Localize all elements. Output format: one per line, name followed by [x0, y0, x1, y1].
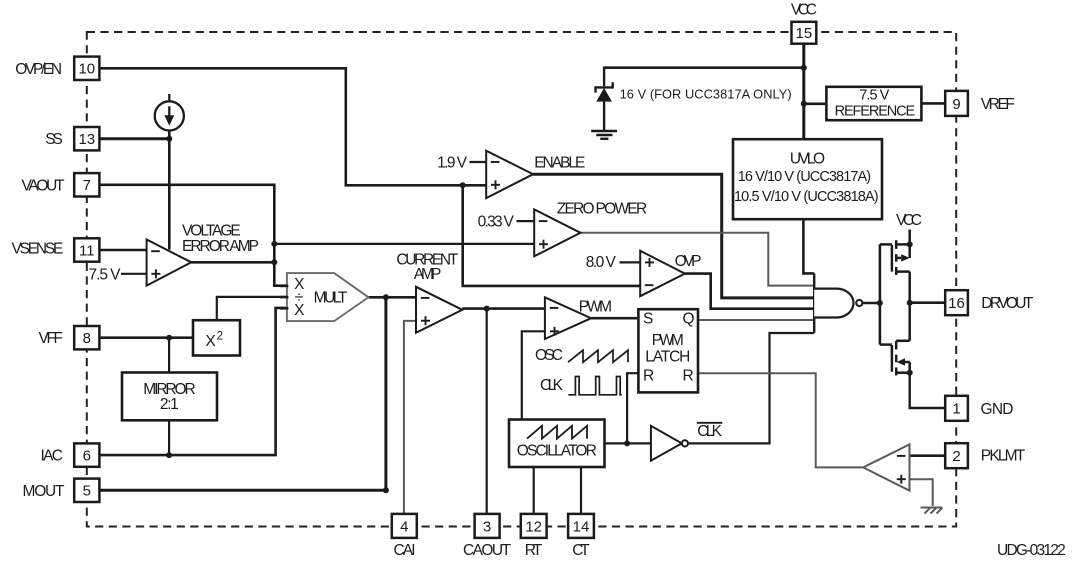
wire 7.5V stub to error amp + input — [121, 273, 147, 275]
node MULT output — [383, 294, 389, 300]
node upper FET drain / VCC — [907, 241, 913, 247]
wire CAI pin4 to current amp + input (gray) — [404, 321, 416, 514]
wire UVLO output to AND gate top input — [803, 219, 814, 273]
svg-text:OVP/EN: OVP/EN — [15, 61, 62, 78]
wire PWM + input to oscillator ramp — [522, 331, 545, 419]
comparator OVP — [640, 251, 685, 296]
svg-text:OVP: OVP — [675, 253, 702, 270]
svg-text:UDG-03122: UDG-03122 — [997, 542, 1066, 559]
svg-text:8.0 V: 8.0 V — [586, 254, 617, 271]
node IAC/MIRROR — [166, 452, 172, 458]
svg-text:6: 6 — [83, 448, 91, 465]
svg-text:VREF: VREF — [981, 96, 1015, 113]
wire lower FET source to GND pin1 — [910, 373, 945, 408]
wire VCC branch to zener — [604, 66, 804, 69]
svg-text:MOUT: MOUT — [23, 483, 66, 500]
wire MOUT pin5 right and up to MULT output node — [99, 297, 386, 490]
svg-text:16: 16 — [948, 295, 965, 312]
svg-text:7.5 V: 7.5 V — [859, 88, 889, 104]
wire driver gate bus vertical — [879, 244, 882, 344]
svg-text:2: 2 — [952, 448, 960, 465]
svg-text:15: 15 — [796, 25, 813, 42]
block U2 7.5V REFERENCE — [826, 87, 921, 120]
svg-text:16 V/10 V (UCC3817A): 16 V/10 V (UCC3817A) — [738, 169, 871, 185]
node ENABLE+ branch — [460, 182, 466, 188]
multiplier MULT — [280, 273, 369, 321]
wire 0.33V stub to ZERO POWER - input — [517, 220, 535, 222]
svg-text:7.5 V: 7.5 V — [89, 266, 122, 283]
svg-text:PWM: PWM — [579, 298, 612, 315]
svg-text:VSENSE: VSENSE — [12, 241, 64, 258]
wire latch R left input to oscillator clock node — [627, 373, 638, 443]
svg-text:10: 10 — [78, 61, 95, 78]
wire OVP/EN pin10 to ENABLE+ — [99, 68, 486, 185]
svg-text:VOLTAGE: VOLTAGE — [182, 223, 241, 240]
svg-text:16 V (FOR UCC3817A ONLY): 16 V (FOR UCC3817A ONLY) — [620, 86, 792, 101]
svg-text:MULT: MULT — [314, 289, 348, 306]
svg-text:12: 12 — [525, 518, 542, 535]
overline for CLK label — [697, 422, 723, 424]
pin 11 VSENSE — [74, 238, 99, 261]
current source I_SS — [155, 94, 184, 131]
svg-text:11: 11 — [79, 242, 95, 259]
pin 6 IAC — [74, 443, 99, 466]
ENABLE - / + — [491, 161, 500, 163]
wire VAOUT pin7 right and down — [99, 185, 288, 286]
oscillator sawtooth icon inside box — [527, 426, 587, 439]
svg-text:1.9 V: 1.9 V — [437, 155, 468, 172]
svg-text:DRVOUT: DRVOUT — [981, 295, 1034, 312]
pin 2 PKLMT — [945, 443, 968, 468]
svg-text:GND: GND — [981, 401, 1014, 418]
pin 13 SS — [74, 127, 99, 150]
wire CAOUT node down to pin3 — [486, 309, 488, 514]
wire CLK inverter output up to AND gate — [688, 333, 814, 443]
svg-text:X: X — [205, 333, 216, 350]
wire VCC pin15 down to UVLO block — [802, 44, 805, 140]
svg-text:R: R — [643, 368, 654, 385]
wire latch R right to PKLMT comparator output (gray) — [698, 373, 863, 467]
comparator ZERO POWER — [534, 209, 580, 256]
node AND output / gate bus — [877, 300, 883, 306]
svg-text:PWM: PWM — [652, 332, 684, 349]
zener diode D1 16V — [596, 67, 613, 131]
wire MIRROR bottom to IAC line — [168, 420, 170, 455]
svg-text:4: 4 — [400, 518, 408, 535]
error amp - / + — [151, 250, 160, 252]
AND gate driver logic — [814, 273, 862, 333]
wire SS pin13 to current source node — [99, 137, 169, 140]
ZERO POWER - / + — [539, 220, 548, 222]
pin 9 VREF — [945, 91, 968, 116]
node current amp output / CAOUT — [484, 306, 490, 312]
pin 4 CAI — [392, 514, 417, 538]
svg-text:VAOUT: VAOUT — [22, 177, 66, 194]
svg-text:14: 14 — [573, 518, 590, 535]
wire VAOUT branch to ZERO POWER + input — [274, 243, 534, 245]
svg-text:LATCH: LATCH — [645, 349, 690, 366]
svg-text:CLK: CLK — [540, 377, 564, 394]
PKLMT - / + — [897, 455, 906, 457]
comparator PWM — [545, 297, 591, 339]
node VAOUT/zero-power branch — [271, 241, 277, 247]
pin 8 VFF — [74, 326, 99, 349]
svg-text:OSCILLATOR: OSCILLATOR — [517, 443, 597, 460]
wire oscillator output to inverter — [605, 442, 651, 444]
minus/plus input signs — [151, 162, 906, 484]
node VCC/zener — [801, 65, 807, 71]
wire VCC branch to 7.5V reference — [804, 103, 827, 106]
pin 5 MOUT — [74, 479, 99, 502]
block U5 X-squared — [193, 320, 240, 355]
wire CT pin14 to oscillator — [580, 467, 582, 514]
wire VFF pin8 to X2 block — [99, 336, 193, 339]
IC boundary dashed border — [87, 32, 956, 527]
wire DRVOUT node to pin16 — [910, 301, 945, 304]
node error amp output — [271, 259, 277, 265]
wire PKLMT + input to signal ground (gray) — [910, 479, 933, 506]
pin 3 CAOUT — [475, 514, 500, 538]
pin 16 DRVOUT — [945, 290, 968, 315]
svg-text:CAOUT: CAOUT — [463, 542, 512, 559]
pin 14 CT — [568, 514, 594, 538]
node MOUT corner — [383, 487, 389, 493]
node VFF/X2 — [166, 335, 172, 341]
block U4 MIRROR 2:1 — [122, 373, 217, 421]
current amp - / + — [421, 297, 430, 299]
svg-text:CLK: CLK — [697, 423, 722, 440]
comparator ENABLE — [486, 151, 533, 198]
transistor Q2 lower driver MOSFET — [880, 303, 910, 376]
svg-text:AMP: AMP — [414, 266, 442, 283]
pin 7 VAOUT — [74, 173, 99, 196]
node DRVOUT — [907, 300, 913, 306]
svg-text:Q: Q — [683, 311, 695, 328]
OVP + / - — [645, 261, 654, 263]
svg-text:IAC: IAC — [41, 448, 64, 465]
svg-text:0.33 V: 0.33 V — [478, 213, 515, 230]
signal ground below PKLMT comparator — [921, 508, 943, 514]
OSC ramp icon — [568, 350, 628, 362]
wire IAC pin6 right then up to MULT X input — [99, 308, 288, 455]
wire AND gate output to driver gate bus — [860, 302, 880, 304]
svg-text:REFERENCE: REFERENCE — [835, 103, 916, 119]
CLK square wave icon — [568, 377, 621, 395]
wire 7.5V reference to VREF pin9 — [921, 102, 945, 105]
node VCC/reference — [801, 101, 807, 107]
node SS/current-source — [166, 136, 172, 142]
transistor Q1 upper driver MOSFET — [880, 230, 910, 303]
block U7 PWM LATCH — [638, 309, 698, 392]
svg-text:SS: SS — [45, 131, 63, 148]
pin 15 VCC — [792, 22, 817, 44]
node oscillator clock — [624, 440, 630, 446]
svg-text:2: 2 — [217, 331, 223, 343]
svg-text:2:1: 2:1 — [160, 396, 179, 413]
svg-text:1: 1 — [952, 401, 960, 418]
pin 10 OVP/EN — [74, 57, 99, 80]
svg-text:7: 7 — [83, 177, 91, 194]
wire RT pin12 to oscillator — [533, 467, 535, 514]
svg-text:S: S — [643, 311, 653, 328]
svg-text:X: X — [294, 302, 305, 319]
wire PWM latch Q output to AND gate (gray) — [698, 319, 814, 321]
svg-text:8: 8 — [83, 330, 91, 347]
ground symbol below zener — [591, 131, 617, 139]
svg-text:R: R — [683, 368, 694, 385]
wire ENABLE+ branch down to OVP- input — [463, 185, 641, 286]
svg-text:3: 3 — [483, 518, 491, 535]
wire ZERO POWER output to AND gate (gray) — [581, 233, 815, 286]
svg-text:UVLO: UVLO — [790, 151, 825, 168]
wire PKLMT pin2 to comparator - input — [910, 454, 945, 457]
svg-text:OSC: OSC — [535, 347, 563, 364]
wire current amp output to PWM - input — [462, 307, 545, 310]
svg-text:5: 5 — [83, 483, 91, 500]
svg-text:VCC: VCC — [896, 212, 922, 229]
node lower FET source — [907, 370, 913, 376]
op-amp U1 voltage error amp — [147, 240, 192, 286]
svg-text:VFF: VFF — [39, 330, 64, 347]
comparator PKLMT — [863, 444, 909, 490]
inverter CLK — [651, 426, 688, 461]
svg-text:10.5 V/10 V (UCC3818A): 10.5 V/10 V (UCC3818A) — [734, 189, 879, 205]
svg-text:ENABLE: ENABLE — [534, 155, 585, 172]
svg-text:ZERO POWER: ZERO POWER — [557, 201, 648, 218]
wire 8.0V stub to OVP + input — [620, 261, 641, 263]
pin 1 GND — [945, 396, 968, 421]
svg-text:CAI: CAI — [394, 542, 416, 559]
wire VFF junction down to MIRROR block — [168, 338, 170, 373]
svg-text:RT: RT — [525, 542, 543, 559]
wire MULT output to current amp - input — [369, 296, 417, 299]
wire ENABLE output to AND gate — [533, 174, 814, 298]
svg-text:PKLMT: PKLMT — [981, 448, 1026, 465]
wire X2 output up to MULT divide input — [217, 297, 289, 320]
op-amp current amp — [416, 287, 462, 333]
svg-text:ERROR AMP: ERROR AMP — [182, 238, 259, 255]
block U6 OSCILLATOR — [509, 420, 605, 468]
wire voltage error amp output — [191, 261, 274, 264]
svg-text:CT: CT — [572, 542, 590, 559]
svg-text:13: 13 — [78, 131, 95, 148]
wire current source node down to voltage error amp — [168, 130, 171, 249]
wire 1.9V stub to ENABLE - input — [470, 161, 487, 163]
block U3 UVLO — [733, 139, 882, 219]
wire OVP output to AND gate — [685, 274, 814, 309]
wire VSENSE pin11 to error amp - input — [99, 249, 146, 252]
svg-text:9: 9 — [952, 96, 960, 113]
wire PWM comparator output to latch S input — [591, 317, 638, 320]
pin 12 RT — [521, 514, 547, 538]
svg-text:VCC: VCC — [791, 1, 817, 18]
PWM - / + — [550, 307, 559, 309]
